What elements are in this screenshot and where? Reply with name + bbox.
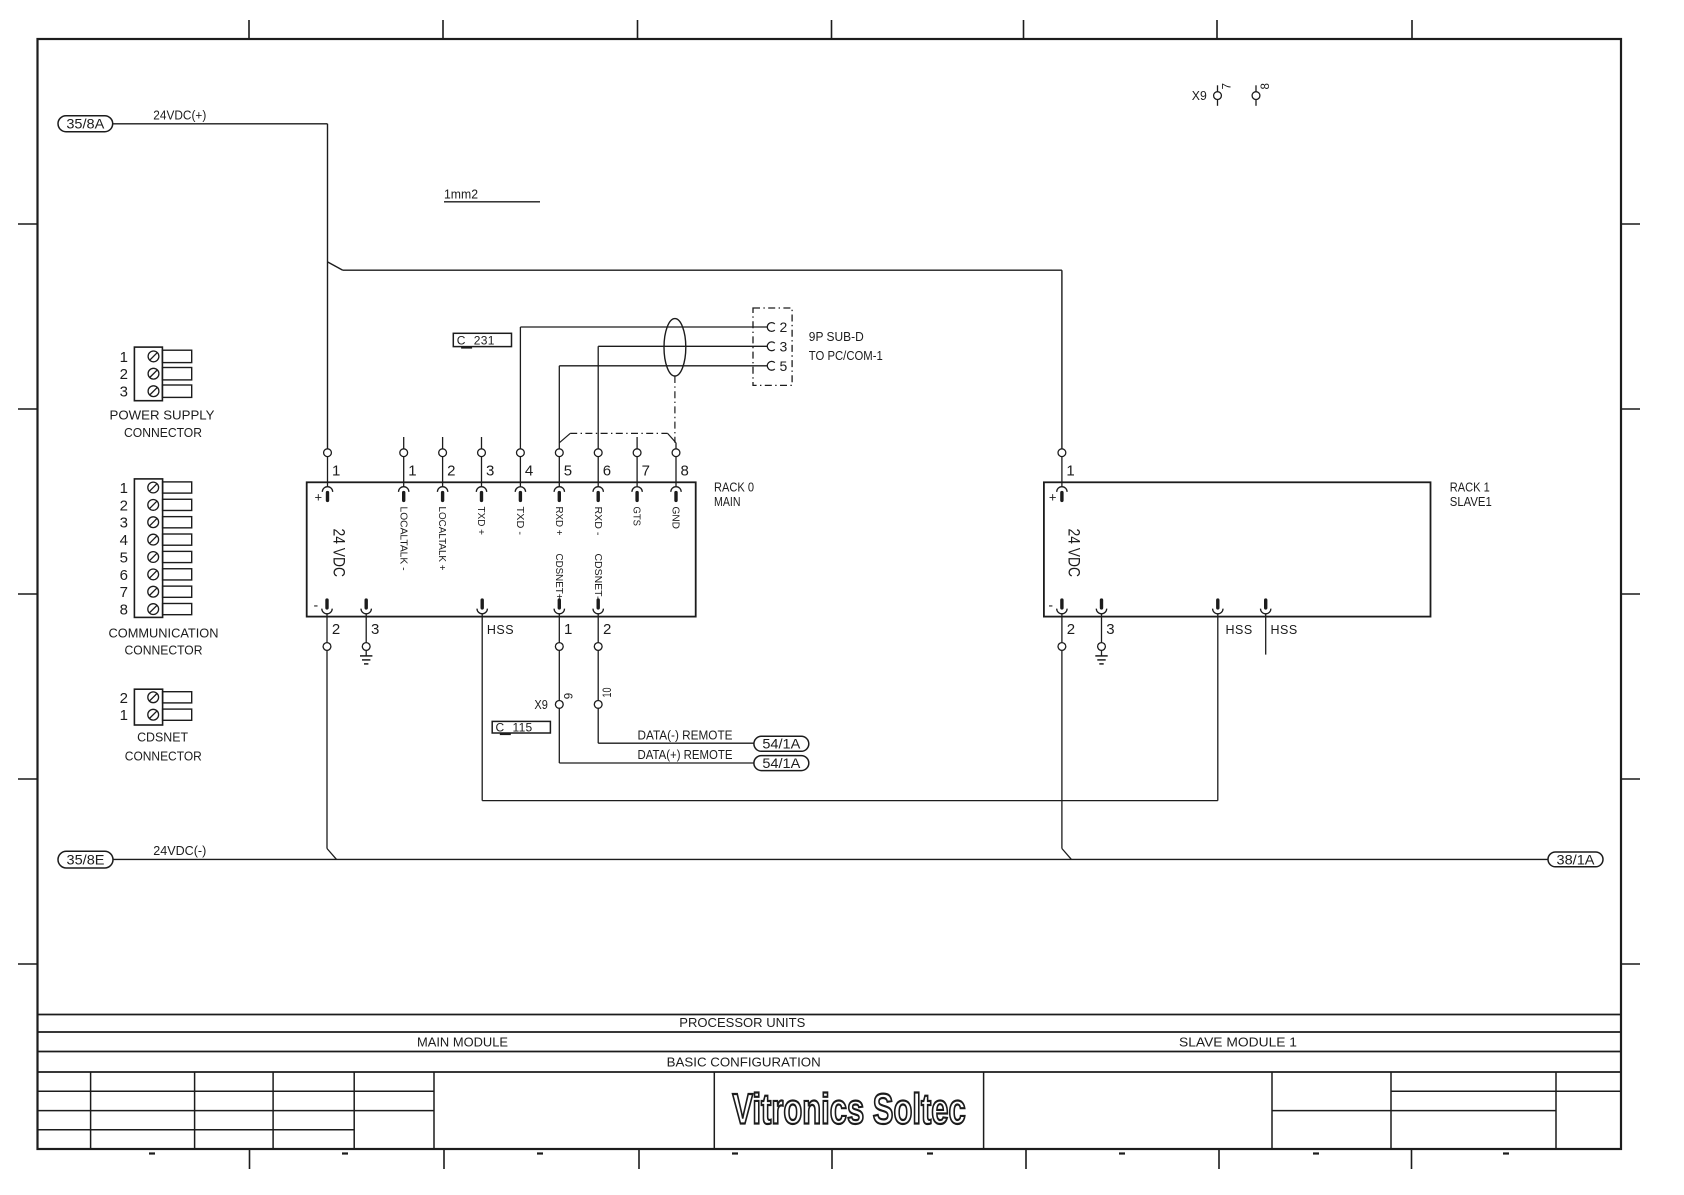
svg-text:24 VDC: 24 VDC [1065,529,1084,578]
svg-text:4: 4 [120,532,128,549]
svg-text:TXD +: TXD + [475,507,486,536]
svg-text:CDSNET+: CDSNET+ [553,554,564,600]
label RACK 1 SLAVE1 [1450,480,1492,508]
rack0 bottom pin 2 CDSNET- [593,600,611,650]
title: PROCESSOR UNITS [679,1016,805,1030]
svg-text:GND: GND [670,507,681,530]
node 35/8E [58,851,113,868]
label 24 VDC rack1 [1065,529,1084,578]
svg-text:8: 8 [1260,83,1272,89]
wire RXD+ to SUB-D pin5 [559,366,767,449]
svg-text:10: 10 [602,688,614,698]
communication pin 6 [120,567,192,584]
svg-text:MAIN: MAIN [714,495,741,509]
svg-text:LOCALTALK -: LOCALTALK - [397,507,408,571]
svg-text:5: 5 [120,549,128,566]
svg-text:C: C [457,333,466,347]
svg-text:3: 3 [1106,621,1114,638]
svg-text:2: 2 [603,621,611,638]
svg-text:24VDC(+): 24VDC(+) [153,108,206,123]
svg-text:POWER SUPPLY: POWER SUPPLY [110,408,216,422]
svg-text:8: 8 [681,463,689,480]
wire rack1 minus to bus [1062,650,1072,859]
label 9P SUB-D [809,330,864,344]
CDSNET pin 1 [120,707,192,724]
svg-text:3: 3 [371,621,379,638]
svg-text:CONNECTOR: CONNECTOR [125,644,203,658]
rack1 bottom pin HSS 1 [1213,600,1253,637]
node 38/1A [1548,852,1603,867]
svg-text:7: 7 [1221,83,1233,89]
svg-text:35/8E: 35/8E [67,852,105,867]
node 54/1A (data minus) [754,736,809,751]
frame reference ticks left [18,224,38,964]
svg-text:CONNECTOR: CONNECTOR [125,749,202,763]
svg-text:2: 2 [120,497,128,514]
label TO PC/COM-1 [809,349,883,363]
cable label C_115 [492,720,550,734]
label COMMUNICATION CONNECTOR [109,626,219,657]
svg-text:RACK 0: RACK 0 [714,480,754,494]
svg-text:9P SUB-D: 9P SUB-D [809,330,864,344]
title: SLAVE MODULE 1 [1179,1036,1297,1050]
svg-text:3: 3 [120,515,128,532]
label CDSNET- [592,554,603,600]
svg-text:GTS: GTS [631,507,642,527]
connector 9P SUB-D box [753,308,792,385]
connector X9 top label [1192,89,1207,103]
label DATA(-) REMOTE [638,728,733,742]
label CDSNET+ [553,554,564,600]
label RACK 0 MAIN [714,480,754,508]
svg-text:1: 1 [120,480,128,497]
wire 24VDC(-) bus [113,858,1548,860]
label 24VDC(+) [153,108,206,123]
rack0 top pin 5 (RXD +) [553,449,572,536]
svg-text:231: 231 [474,333,495,347]
rack0 top pin 4 (TXD -) [514,449,533,535]
shield drain dash-dot [559,376,676,443]
svg-text:1: 1 [332,463,340,480]
ground symbol rack1 pin3 [1095,656,1107,664]
svg-text:-: - [1048,597,1053,613]
svg-text:115: 115 [513,720,533,734]
title block lines [38,1015,1622,1150]
svg-text:HSS: HSS [487,623,514,637]
wire RXD- to SUB-D pin3 [598,346,767,449]
communication pin 4 [120,532,192,549]
svg-text:3: 3 [780,338,788,354]
label 1mm2 wire gauge [444,187,540,202]
rack0 bottom pin HSS [477,600,514,637]
rack0 top pin 7 (GTS) [631,437,650,526]
svg-text:9: 9 [564,693,576,699]
communication pin 1 [120,480,192,497]
svg-text:38/1A: 38/1A [1557,852,1595,867]
label 24 VDC rack0 [330,529,349,578]
svg-text:35/8A: 35/8A [66,117,104,132]
power supply pin 1 [120,349,192,366]
svg-text:2: 2 [120,366,128,383]
wire DATA(-) REMOTE [598,708,754,743]
cable label C_231 [453,333,511,347]
frame reference ticks top [249,20,1412,39]
svg-text:DATA(+) REMOTE: DATA(+) REMOTE [638,748,733,762]
cable shield oval [664,319,686,376]
svg-text:6: 6 [603,463,611,480]
svg-text:1mm2: 1mm2 [444,187,478,202]
svg-text:LOCALTALK +: LOCALTALK + [436,507,447,571]
SUB-D pin 5 [767,358,787,374]
communication pin 2 [120,497,192,514]
rack0 top pin 8 (GND) [670,443,689,529]
svg-text:CONNECTOR: CONNECTOR [124,426,202,440]
CDSNET pin 2 [120,690,192,707]
svg-text:MAIN MODULE: MAIN MODULE [417,1036,508,1050]
ground symbol rack0 pin3 [360,656,372,664]
label DATA(+) REMOTE [638,748,733,762]
svg-text:2: 2 [120,690,128,707]
rack0 top pin 1 (+24V) [315,449,341,505]
rack0 top pin 6 (RXD -) [592,449,611,536]
power supply pin 2 [120,366,192,383]
svg-text:1: 1 [564,621,572,638]
communication pin 7 [120,584,192,601]
rack0 bottom pin 2 (-) [314,597,341,651]
svg-text:-: - [314,597,319,613]
SUB-D pin 2 [767,319,787,335]
connector power supply box [134,347,162,401]
svg-text:RXD -: RXD - [592,507,603,536]
wire 24VDC(+) net [113,124,1062,449]
wire DATA(+) REMOTE [559,708,754,763]
communication pin 8 [120,602,192,619]
svg-text:1: 1 [120,349,128,366]
svg-text:2: 2 [1067,621,1075,638]
svg-text:24VDC(-): 24VDC(-) [153,843,206,858]
svg-text:BASIC CONFIGURATION: BASIC CONFIGURATION [667,1056,821,1070]
frame reference ticks bottom [250,1149,1412,1169]
rack0 bottom pin 1 CDSNET+ [554,600,572,650]
rack1 bottom pin 3 (PE) [1096,600,1114,656]
svg-text:54/1A: 54/1A [762,756,800,771]
svg-text:5: 5 [780,358,788,374]
rack0 top pin 1 (LOCALTALK -) [397,437,416,571]
frame reference ticks right [1621,224,1640,964]
svg-text:1: 1 [120,707,128,724]
svg-text:1: 1 [1066,463,1074,480]
svg-text:Vitronics Soltec: Vitronics Soltec [732,1084,965,1132]
svg-text:7: 7 [642,463,650,480]
svg-text:2: 2 [447,463,455,480]
X9 pin 7 [1214,83,1234,106]
frame column number marks [149,1152,1509,1154]
X9 pin 9 [555,650,575,708]
wire HSS bus [482,617,1218,801]
connector X9 label [534,698,548,712]
svg-text:CDSNET-: CDSNET- [592,554,603,600]
rack1 bottom pin 2 (-) [1048,597,1075,651]
svg-text:4: 4 [525,463,533,480]
rack0 top pin 3 (TXD +) [475,437,494,535]
svg-text:24 VDC: 24 VDC [330,529,349,578]
connector CDSNET box [134,689,162,725]
svg-text:DATA(-) REMOTE: DATA(-) REMOTE [638,728,733,742]
logo Vitronics Soltec [732,1084,965,1132]
label 24VDC(-) [153,843,206,858]
power supply pin 3 [120,384,192,401]
svg-text:TXD -: TXD - [514,507,525,536]
svg-text:CDSNET: CDSNET [137,731,188,745]
svg-text:X9: X9 [1192,89,1207,103]
svg-text:HSS: HSS [1226,623,1253,637]
rack1 bottom pin HSS 2 (open) [1261,600,1298,655]
SUB-D pin 3 [767,338,787,354]
svg-text:X9: X9 [534,698,548,712]
label CDSNET CONNECTOR [125,731,202,764]
rack0 top pin 2 (LOCALTALK +) [436,437,455,571]
node 35/8A [58,116,113,132]
communication pin 5 [120,549,192,566]
svg-text:1: 1 [408,463,416,480]
rack U1 RACK 0 MAIN box [307,482,696,616]
svg-text:RACK 1: RACK 1 [1450,480,1490,494]
svg-text:PROCESSOR UNITS: PROCESSOR UNITS [679,1016,805,1030]
wire TXD- to SUB-D pin2 [520,327,767,449]
svg-text:SLAVE1: SLAVE1 [1450,495,1492,509]
svg-text:HSS: HSS [1271,623,1298,637]
svg-text:+: + [315,490,323,505]
title: MAIN MODULE [417,1036,508,1050]
node 54/1A (data plus) [754,756,809,771]
wire rack0 minus to bus [327,650,337,859]
svg-text:2: 2 [332,621,340,638]
title: BASIC CONFIGURATION [667,1056,821,1070]
svg-text:TO PC/COM-1: TO PC/COM-1 [809,349,883,363]
svg-text:5: 5 [564,463,572,480]
svg-text:COMMUNICATION: COMMUNICATION [109,626,219,640]
rack1 top pin 1 (+24V) [1049,449,1075,505]
svg-text:6: 6 [120,567,128,584]
svg-text:C: C [496,720,505,734]
svg-text:+: + [1049,490,1057,505]
svg-text:7: 7 [120,584,128,601]
communication pin 3 [120,515,192,532]
X9 pin 8 [1252,83,1272,106]
svg-text:2: 2 [780,319,788,335]
svg-text:3: 3 [486,463,494,480]
svg-text:8: 8 [120,602,128,619]
connector communication box [134,479,162,618]
X9 pin 10 [594,650,614,708]
svg-text:SLAVE MODULE 1: SLAVE MODULE 1 [1179,1036,1297,1050]
svg-text:3: 3 [120,384,128,401]
svg-text:RXD +: RXD + [553,507,564,536]
svg-text:54/1A: 54/1A [762,737,800,752]
label POWER SUPPLY CONNECTOR [110,408,216,440]
rack U2 RACK 1 SLAVE1 box [1044,482,1431,616]
rack0 bottom pin 3 (PE) [361,600,379,656]
